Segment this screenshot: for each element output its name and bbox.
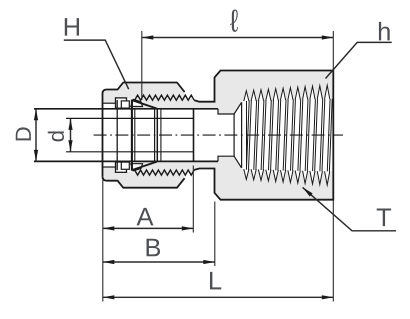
exposed male thread teeth (top) — [181, 95, 193, 100]
leader h — [326, 42, 392, 78]
ferrule interface second line — [134, 109, 136, 162]
ferrule edge line (back) — [116, 100, 118, 170]
ferrule interface line (thick) — [131, 100, 133, 171]
front ferrule bottom slope — [133, 162, 158, 170]
extension line: L right (body face) — [332, 200, 334, 302]
centerline — [94, 134, 343, 136]
pilot bore end face — [233, 114, 235, 156]
female NPT thread T (top teeth) — [244, 91, 249, 101]
exposed male thread teeth (bottom) — [181, 170, 193, 175]
male thread zigzag (bottom) — [135, 170, 195, 175]
female threaded bore cavity — [242, 99, 334, 171]
extension line: A right (tube end) — [192, 166, 194, 233]
dimension line d (vertical, tube ID) — [70, 118, 72, 151]
bore cavity (tube socket, pilot bore, cone) — [103, 102, 242, 168]
body mouth line — [160, 109, 162, 162]
extension line: l right above body — [332, 31, 334, 71]
body U1: hex block — [215, 71, 334, 200]
label A — [137, 208, 154, 226]
dimension line D (vertical, tube OD) — [35, 109, 37, 162]
nut internal shoulder box (top) — [116, 98, 127, 108]
nut internal shoulder box (bottom) — [116, 162, 127, 172]
body U1: threaded neck top wall — [135, 93, 243, 109]
female NPT thread T (bottom teeth) — [244, 169, 249, 179]
nut bore line (top) — [103, 102, 116, 104]
leader H — [64, 40, 129, 89]
dimension line B — [103, 261, 215, 263]
label D — [16, 127, 31, 140]
back ferrule wedge (top) — [131, 99, 143, 106]
nut bore line (bottom) — [103, 166, 116, 168]
tube inner diameter lines — [66, 117, 194, 119]
label L — [210, 272, 221, 290]
label H — [65, 18, 79, 36]
label T — [377, 209, 391, 227]
front ferrule nose lines — [154, 109, 156, 162]
cone lead-in to female threads — [234, 102, 242, 114]
back ferrule wedge (bottom) — [131, 164, 143, 171]
extension line: common left (nut face) — [102, 180, 104, 302]
back ferrule small square (top) — [121, 101, 129, 108]
body outline stroke (hex block, chamfers, right face) — [194, 71, 333, 200]
dimension line L — [103, 296, 333, 298]
tube end face — [193, 109, 195, 162]
thread helix lines in bore — [246, 101, 249, 170]
front ferrule top slope — [133, 100, 158, 108]
male thread zigzag (top, nut/body engagement) — [135, 95, 195, 100]
dimension line A — [103, 227, 194, 229]
label l (script ell) — [230, 9, 238, 31]
thread relief face — [241, 102, 243, 168]
label d — [48, 131, 64, 141]
nut outline stroke — [103, 83, 185, 177]
leader T with arrow — [303, 187, 396, 230]
label B — [147, 239, 161, 257]
label h — [379, 22, 390, 40]
back ferrule small square (bottom) — [121, 162, 129, 169]
dimension line l — [142, 37, 333, 39]
body U1: threaded neck bottom wall — [135, 161, 243, 177]
nut N1 (compression nut, cross-section silhouette) — [103, 83, 185, 104]
extension line: B right (hex face) — [214, 202, 216, 267]
extension line: l left (ferrule plane) — [141, 31, 143, 100]
socket counterbore step — [218, 109, 234, 114]
tube P1 outer diameter lines — [34, 108, 218, 110]
